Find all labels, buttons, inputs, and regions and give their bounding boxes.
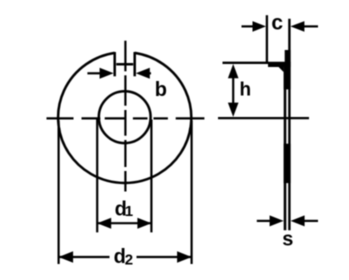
svg-text:b: b	[155, 79, 167, 101]
svg-text:1: 1	[125, 203, 133, 220]
svg-text:h: h	[239, 79, 251, 100]
svg-text:s: s	[282, 229, 293, 251]
svg-text:c: c	[271, 12, 283, 35]
svg-text:2: 2	[125, 251, 133, 268]
